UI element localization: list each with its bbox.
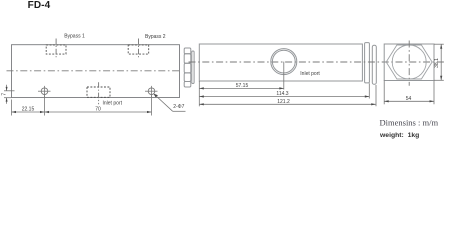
svg-text:54: 54 — [406, 96, 412, 102]
svg-text:22.15: 22.15 — [22, 107, 35, 113]
extension lines below left view — [12, 96, 152, 116]
inlet port circle outer — [271, 49, 297, 75]
svg-text:Dimensins : m/m: Dimensins : m/m — [380, 118, 439, 128]
dimension line 54 — [384, 100, 434, 102]
extension lines 38.1 — [434, 44, 444, 80]
bypass 1 port (dashed) — [46, 45, 66, 54]
svg-text:FD-4: FD-4 — [28, 0, 51, 11]
dimension line 114.3 — [199, 96, 369, 98]
right view hex nut — [386, 45, 432, 79]
svg-text:weight: 1kg: weight: 1kg — [379, 132, 419, 139]
svg-text:70: 70 — [95, 106, 101, 112]
svg-text:Inlet port: Inlet port — [300, 71, 320, 77]
extension lines middle view — [199, 81, 376, 106]
inlet port center extension line — [283, 62, 285, 90]
bypass 1 vertical centerline — [55, 39, 57, 59]
right view square outline — [384, 44, 434, 81]
svg-text:Bypass 2: Bypass 2 — [145, 34, 166, 40]
svg-text:7: 7 — [1, 93, 7, 96]
inlet port left view (dashed) — [87, 87, 110, 97]
svg-text:Bypass 1: Bypass 1 — [64, 34, 85, 40]
left view body outline — [12, 45, 180, 98]
left view horizontal centerline — [7, 70, 182, 72]
right view body circle — [392, 45, 426, 79]
inlet port vertical centerline — [98, 82, 100, 104]
dimension line 38.1 — [440, 44, 442, 80]
bypass 2 port (dashed) — [128, 45, 149, 54]
mounting hole 1 — [38, 86, 51, 97]
dimension line 22.15 and 70 — [12, 111, 152, 113]
svg-text:38.1: 38.1 — [434, 58, 440, 68]
middle view end cap — [365, 43, 370, 83]
bypass 2 vertical centerline — [138, 39, 140, 59]
svg-text:Inlet port: Inlet port — [103, 101, 123, 107]
dimension line 121.2 — [199, 103, 375, 105]
dimension line 57.15 — [199, 87, 283, 89]
mounting hole 2 — [145, 86, 158, 97]
dimension 7 (left side) — [4, 85, 15, 104]
svg-text:2-Φ7: 2-Φ7 — [173, 104, 184, 110]
inlet port circle inner — [272, 50, 295, 73]
svg-text:121.2: 121.2 — [277, 99, 290, 105]
middle view horizontal centerline — [189, 61, 445, 63]
middle view body outline — [199, 44, 362, 81]
svg-text:57.15: 57.15 — [236, 83, 249, 89]
middle view end washer — [372, 45, 376, 84]
leader 2-d7 — [154, 94, 173, 111]
washer at hex nut — [192, 51, 194, 84]
right view vertical centerline — [408, 41, 410, 86]
svg-text:114.3: 114.3 — [276, 91, 288, 97]
extension lines 54 — [384, 81, 434, 105]
hex nut side view bands — [184, 48, 191, 87]
